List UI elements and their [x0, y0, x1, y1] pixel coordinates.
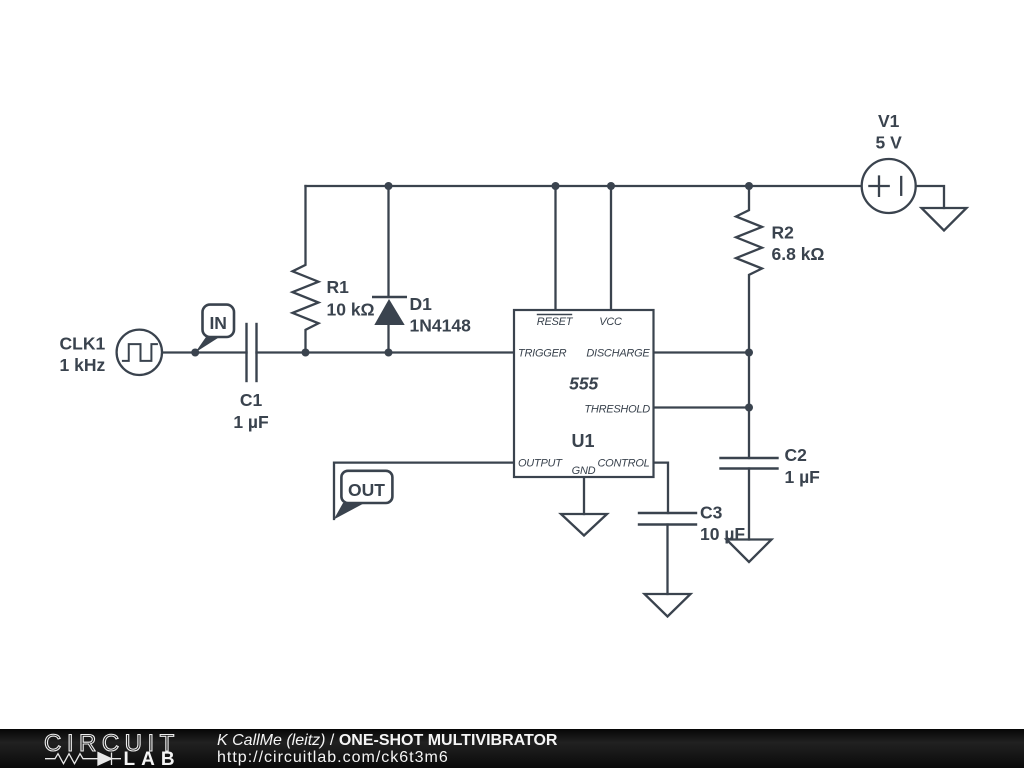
resistor R1 [293, 186, 319, 353]
flag OUT [334, 471, 393, 520]
junction dot RESET top [552, 182, 560, 190]
junction dot R1 bottom [302, 349, 310, 357]
wire THRESHOLD to R2 [654, 406, 750, 408]
capacitor C3 [639, 513, 696, 594]
svg-text:LAB: LAB [124, 749, 181, 768]
voltage source V1 [862, 159, 916, 213]
svg-text:IN: IN [209, 313, 227, 333]
resistor R2 [736, 186, 762, 458]
junction dot D1 top [385, 182, 393, 190]
svg-text:K CallMe (leitz) / ONE-SHOT MU: K CallMe (leitz) / ONE-SHOT MULTIVIBRATO… [217, 732, 558, 749]
junction dot DISCHARGE [745, 349, 753, 357]
wire RESET pin to top rail [554, 186, 556, 310]
svg-text:C11 µF: C11 µF [233, 390, 269, 432]
diode D1 [373, 186, 405, 353]
wire DISCHARGE to R2 [654, 351, 750, 353]
svg-text:555: 555 [569, 374, 598, 394]
IC U1 555 box [514, 310, 654, 477]
wire V1 to ground [916, 186, 944, 208]
svg-text:U1: U1 [571, 431, 594, 451]
junction dot R2 top [745, 182, 753, 190]
junction dot VCC top [607, 182, 615, 190]
svg-text:R110 kΩ: R110 kΩ [327, 277, 375, 320]
svg-text:V15 V: V15 V [876, 111, 903, 153]
svg-text:OUTPUT: OUTPUT [518, 458, 563, 470]
capacitor C1 [247, 324, 257, 381]
svg-text:CONTROL: CONTROL [597, 458, 649, 470]
svg-text:CLK11 kHz: CLK11 kHz [60, 334, 106, 376]
svg-text:THRESHOLD: THRESHOLD [584, 404, 650, 416]
capacitor C2 [721, 458, 778, 540]
junction dot IN anchor [191, 349, 199, 357]
svg-text:TRIGGER: TRIGGER [518, 348, 567, 360]
footer bar [0, 729, 1024, 768]
ground (C2) [727, 540, 772, 563]
wire CONTROL to C3 [654, 463, 669, 513]
junction dot D1 bottom [385, 349, 393, 357]
wire trigger rail (CLK1 to C1) [162, 351, 247, 353]
wire top rail [306, 185, 862, 187]
ground (C3) [645, 594, 691, 617]
junction dot THRESHOLD [745, 404, 753, 412]
wire U1 GND down [583, 477, 585, 514]
ground (V1) [922, 208, 967, 231]
flag IN [195, 305, 234, 353]
svg-text:C21 µF: C21 µF [785, 445, 821, 487]
pin RESET overline [538, 314, 572, 316]
svg-text:DISCHARGE: DISCHARGE [586, 348, 650, 360]
svg-text:http://circuitlab.com/ck6t3m6: http://circuitlab.com/ck6t3m6 [217, 749, 449, 766]
svg-text:D11N4148: D11N4148 [410, 294, 472, 336]
svg-text:C310 µF: C310 µF [700, 503, 745, 545]
wire OUTPUT to OUT flag [334, 463, 514, 519]
svg-text:GND: GND [572, 465, 596, 477]
clock source CLK1 [117, 330, 162, 375]
ground (U1 GND) [561, 514, 607, 536]
logo schematic line [45, 753, 121, 766]
svg-text:RESET: RESET [537, 316, 574, 328]
svg-text:R26.8 kΩ: R26.8 kΩ [772, 223, 825, 265]
svg-text:OUT: OUT [348, 480, 385, 500]
svg-text:VCC: VCC [599, 316, 622, 328]
wire VCC pin to top rail [610, 186, 612, 310]
wire C1 to U1 TRIGGER [257, 351, 515, 353]
